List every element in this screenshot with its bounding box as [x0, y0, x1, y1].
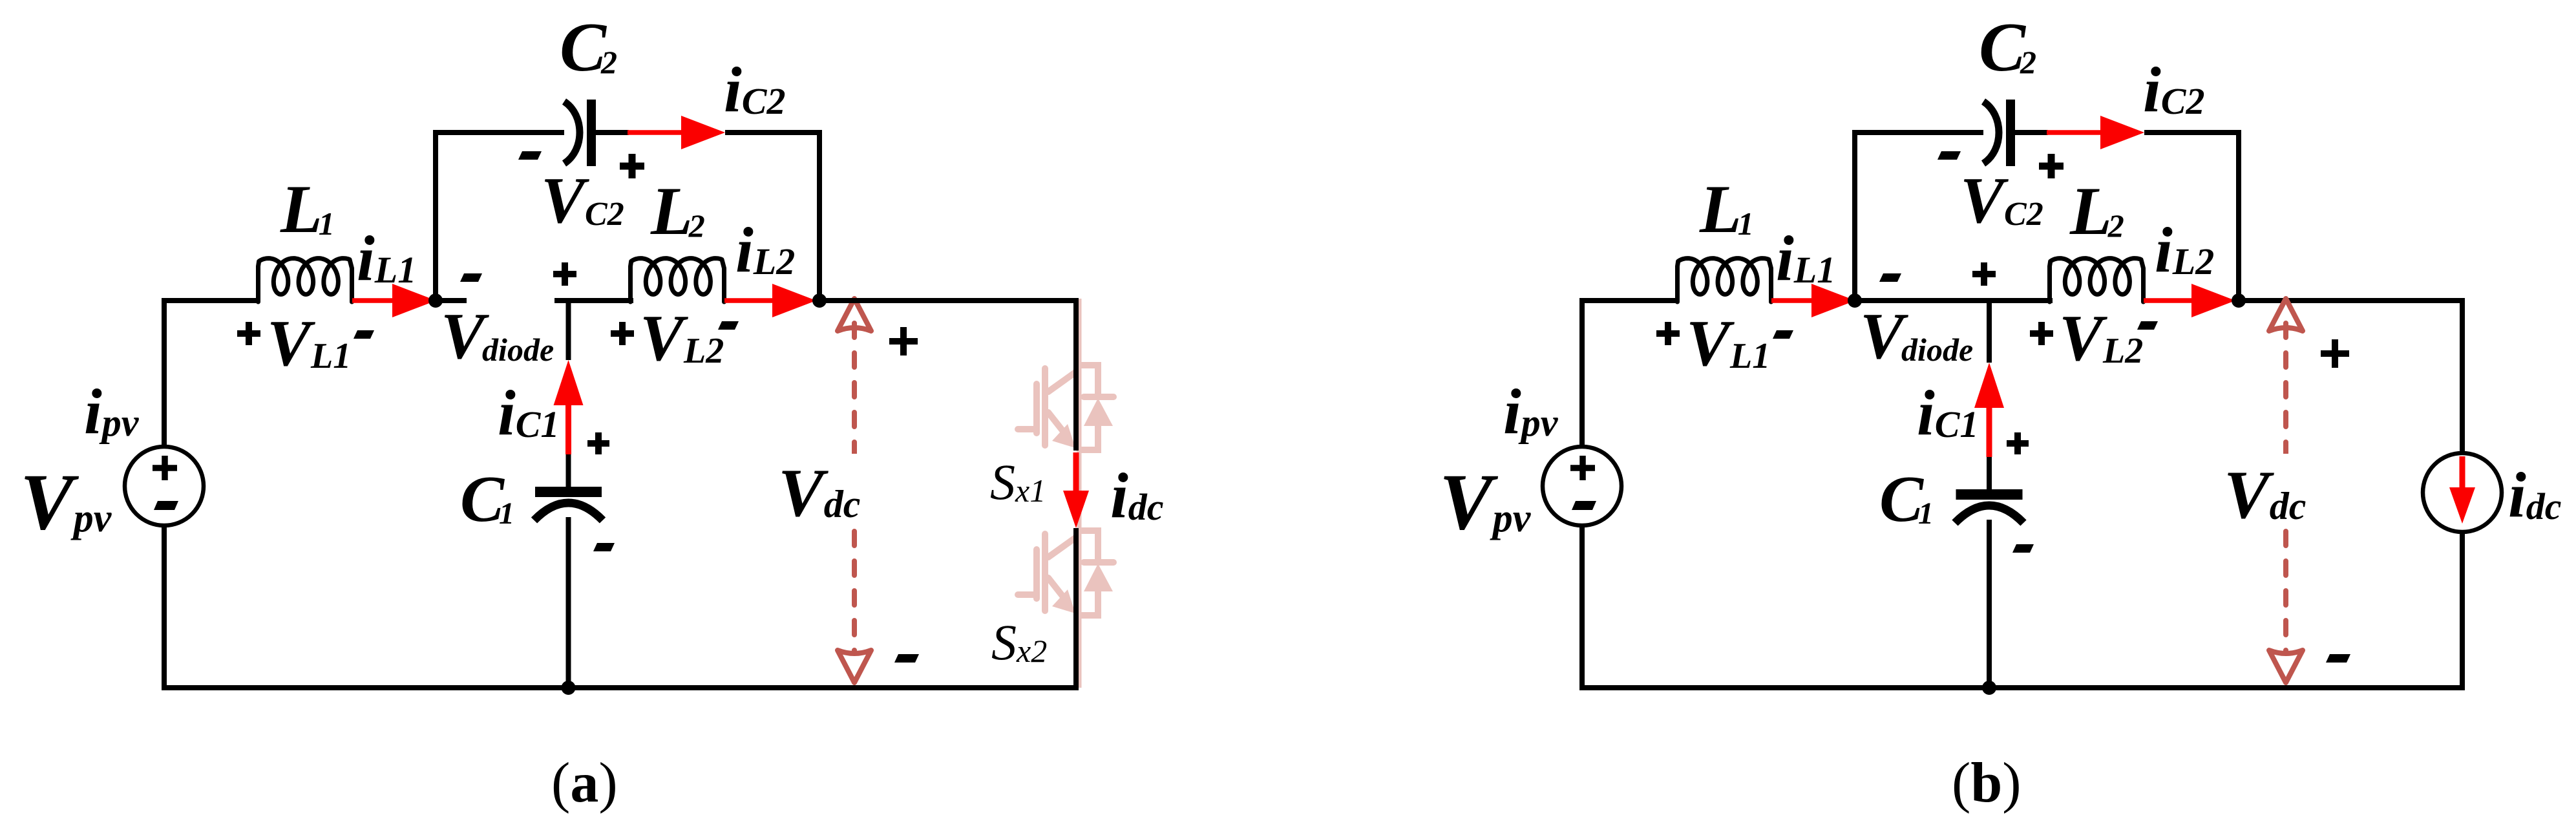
wire (a) right edge bottom segment: [1073, 528, 1079, 690]
label + at C1 junction (b): [1972, 262, 1996, 286]
capacitor C2 (b): [1983, 101, 1999, 164]
current source idc (b): [2423, 453, 2502, 532]
wire (a) right edge top segment: [819, 301, 1076, 451]
current arrow iL1 (b): [1771, 298, 1814, 303]
inductor L2 (b): [2050, 259, 2144, 302]
wire (a) node A stub: [436, 298, 467, 303]
wire (b) top-left: source to L1: [1582, 301, 1678, 447]
label - of C1 (b): [2012, 544, 2034, 553]
wire (a) C1 junction to L2: [554, 298, 633, 303]
wire (b) node B to right edge: [2239, 298, 2462, 303]
current arrow iC2 (b): [2047, 130, 2103, 135]
wire (a) node B to right edge: [819, 298, 1076, 303]
wire (b) C2 right lead: [2015, 130, 2048, 135]
current arrow iC1 (b): [1987, 405, 1992, 457]
wire (a) C1 mid lead: [566, 454, 571, 487]
label - Vdiode (b): [1879, 273, 1901, 282]
label - of Vdc (a): [894, 654, 919, 663]
label + of C1 (a): [587, 432, 609, 454]
label + at C1 junction (a): [553, 262, 576, 286]
node A (a) diode node: [428, 293, 443, 308]
wire (b) right edge bottom segment: [2460, 532, 2465, 690]
label -/+ of C2 (a): [518, 151, 542, 160]
wire (b) right edge top segment: [2460, 298, 2465, 453]
voltage source Vpv (b): [1543, 447, 1621, 525]
current arrow iL2 (b): [2144, 298, 2194, 303]
wire (a) source bottom lead: [162, 525, 167, 688]
node B (a): [812, 293, 827, 308]
label +VL2- (b): [2030, 322, 2053, 345]
capacitor C2 (a): [564, 101, 580, 164]
current arrow iL1 (a): [352, 298, 395, 303]
wire (b) bottom rail: [1579, 685, 2462, 690]
label - of C1 (a): [593, 543, 615, 551]
label + of Vdc (a): [889, 327, 918, 356]
label Vdc (b): [2279, 454, 2293, 526]
wire (b) source bottom lead: [1579, 525, 1585, 688]
svg-text:(a): (a): [551, 752, 618, 814]
voltage source Vpv (a): [125, 447, 204, 525]
label + of C1 (b): [2007, 432, 2029, 454]
node bottom (a): [562, 681, 576, 695]
node bottom (b): [1982, 681, 1996, 695]
node B (b): [2232, 293, 2246, 308]
capacitor C2 branch (a): left riser: [436, 133, 564, 301]
wire (a) C1 bottom lead: [566, 517, 571, 688]
current arrow iL2 (a): [724, 298, 775, 303]
svg-text:(b): (b): [1952, 752, 2022, 814]
capacitor C1 (a): [535, 487, 602, 497]
transistor Sx1 (IGBT, pink): [1018, 365, 1114, 450]
label Vdc (a): [847, 454, 861, 526]
capacitor C2 branch (b): left riser: [1855, 133, 1983, 301]
wire (a) top-left: source to L1: [164, 301, 259, 447]
current arrow idc (a): [1073, 452, 1079, 493]
label - Vdiode (a): [460, 273, 482, 282]
capacitor C1 (b): [1956, 489, 2023, 500]
Vdc dashed arrow (b): [2269, 299, 2303, 331]
node A (b): [1848, 293, 1862, 308]
inductor L2 (a): [631, 259, 724, 302]
Vdc dashed arrow (a): [838, 299, 871, 331]
label -/+ of C2 (b): [1937, 151, 1961, 160]
wire (b) node A to L2 (continuous): [1855, 298, 2053, 303]
wire (a) C2 loop right side down to node B: [725, 133, 819, 301]
wire (b) C1 mid lead: [1987, 457, 1992, 489]
capacitor C1 branch (b): top lead: [1987, 301, 1992, 363]
IGBT leg (a): pink rail: [1077, 299, 1082, 688]
label +VL2- (a): [611, 322, 634, 345]
current arrow iC2 (a): [628, 130, 684, 135]
current arrow iC1 (a): [565, 403, 571, 454]
wire (b) C2 loop right side down to node B: [2144, 133, 2239, 301]
transistor Sx2 (IGBT, pink): [1018, 531, 1114, 615]
wire (a) bottom rail: [162, 685, 1076, 690]
wire (a) C2 right lead: [596, 130, 629, 135]
inductor L1 (b): [1678, 259, 1771, 302]
capacitor C1 branch (a): top lead: [566, 301, 571, 360]
inductor L1 (a): [259, 259, 352, 302]
label + of Vdc (b): [2321, 339, 2349, 368]
wire (b) C1 bottom lead: [1987, 520, 1992, 688]
label - of Vdc (b): [2326, 654, 2350, 663]
label +VL1- (b): [1656, 322, 1680, 345]
label +VL1- (a): [237, 322, 260, 345]
